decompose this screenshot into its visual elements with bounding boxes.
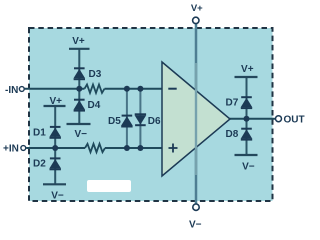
svg-text:+IN: +IN <box>3 143 19 154</box>
resistor R2 (non-inverting input) <box>85 144 105 152</box>
terminal -IN <box>19 87 24 92</box>
diode D4 <box>74 100 86 111</box>
wire -IN to op-amp <box>105 88 163 90</box>
supply rail segment crossing op-amp <box>195 63 197 175</box>
svg-text:V−: V− <box>74 129 87 140</box>
junction node D3/D4 on -IN wire <box>76 86 82 92</box>
junction node D6 top <box>137 86 143 92</box>
svg-text:D5: D5 <box>108 116 121 127</box>
D6 column wire <box>139 89 141 148</box>
svg-text:V−: V− <box>51 190 64 201</box>
V- rail bar below D2 <box>43 183 66 185</box>
op-amp non-inverting input plus sign <box>169 144 178 153</box>
junction node D1/D2 on +IN wire <box>52 145 58 151</box>
svg-text:OUT: OUT <box>284 115 305 126</box>
V+ supply rail wire (vertical) <box>195 24 198 205</box>
D7/D8 column wire <box>246 77 248 155</box>
V+ rail bar above D7 <box>235 76 258 78</box>
D3/D4 column wire <box>78 49 80 124</box>
V+ rail bar above D1 <box>44 105 66 107</box>
wire output segment <box>229 118 276 120</box>
svg-text:D7: D7 <box>226 97 239 108</box>
resistor R1 (inverting input) <box>85 85 105 93</box>
white label patch <box>87 180 131 192</box>
D5 column wire <box>126 89 128 148</box>
svg-text:V+: V+ <box>49 96 62 107</box>
diode D3 <box>74 68 86 79</box>
svg-text:V−: V− <box>242 162 255 173</box>
svg-text:V−: V− <box>189 220 202 231</box>
svg-text:D1: D1 <box>33 127 46 138</box>
svg-text:D8: D8 <box>226 129 239 140</box>
svg-text:D3: D3 <box>89 69 102 80</box>
svg-text:V+: V+ <box>72 36 85 47</box>
diode D2 <box>49 158 61 169</box>
terminal V- bottom <box>193 204 199 210</box>
op-amp U1 triangle body <box>162 62 230 176</box>
diode D7 <box>241 97 253 108</box>
terminal V+ top <box>193 17 199 23</box>
diode D6 (points down) <box>135 114 147 125</box>
terminal OUT <box>276 116 282 122</box>
diode D5 <box>121 116 133 127</box>
junction node output D7/D8 <box>244 116 250 122</box>
svg-text:-IN: -IN <box>5 85 18 96</box>
svg-text:V+: V+ <box>241 64 254 75</box>
V- rail bar below D8 <box>235 154 258 156</box>
diode D1 <box>49 127 61 138</box>
junction node D5 bottom <box>124 145 130 151</box>
terminal +IN <box>21 146 26 151</box>
svg-text:D2: D2 <box>33 158 46 169</box>
D1/D2 column wire <box>54 106 56 184</box>
op-amp inverting input minus sign <box>168 88 176 90</box>
wire -IN input segment <box>25 88 85 90</box>
V- rail bar below D4 <box>67 123 91 125</box>
wire +IN input segment <box>26 147 85 149</box>
V+ rail bar above D3 <box>69 48 90 50</box>
svg-text:D4: D4 <box>88 100 101 111</box>
IC boundary dashed border <box>29 28 273 201</box>
svg-text:V+: V+ <box>191 3 203 14</box>
junction node D6 bottom <box>137 145 143 151</box>
svg-text:D6: D6 <box>148 116 161 127</box>
IC boundary box fill <box>29 28 273 201</box>
wire +IN to op-amp <box>105 147 163 149</box>
diode D8 <box>241 129 253 140</box>
junction node D5 top <box>124 86 130 92</box>
